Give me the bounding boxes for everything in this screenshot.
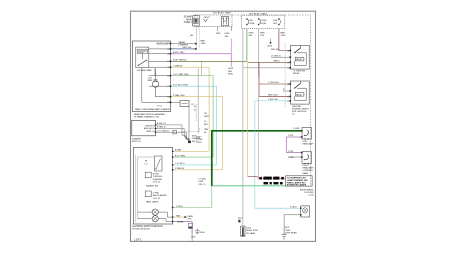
lamp circle 1 <box>138 209 194 220</box>
svg-text:2 PG 12: 2 PG 12 <box>153 198 161 200</box>
tan long vertical <box>247 61 249 176</box>
svg-text:RED 440: RED 440 <box>271 49 280 51</box>
switch internal feed wires <box>142 49 171 102</box>
schematic page border <box>131 11 316 241</box>
wire stub to flash-to-pass label <box>171 43 197 45</box>
svg-text:TURN: TURN <box>260 20 266 22</box>
headlamp switch inner contact box <box>136 47 152 72</box>
junction block caption <box>300 189 314 196</box>
svg-text:BRN 9: BRN 9 <box>274 61 281 63</box>
connector box on purple park wire <box>188 223 196 238</box>
svg-text:D LT GRN 1638: D LT GRN 1638 <box>173 74 189 76</box>
svg-text:DRL: DRL <box>274 20 279 22</box>
splice S339 <box>188 136 200 143</box>
svg-text:HAZARD SW: HAZARD SW <box>146 184 158 187</box>
svg-text:E LT BLU 1639: E LT BLU 1639 <box>173 84 189 86</box>
splice caption S338 <box>199 179 207 186</box>
svg-text:AND HI-LO: AND HI-LO <box>144 127 155 130</box>
fuse STOP in block 2 <box>274 18 281 25</box>
cyan wire long run to park lamp <box>255 99 301 208</box>
svg-text:PANEL: PANEL <box>179 41 187 44</box>
inline connector on dimmer wire <box>173 130 176 134</box>
thick DRL green feed wire <box>173 131 302 208</box>
svg-text:OFF PARK HEAD: OFF PARK HEAD <box>137 69 153 72</box>
drop from connector box to splice <box>188 106 190 140</box>
headlamp switch assembly caption <box>134 113 166 119</box>
gray ground vertical <box>242 29 244 226</box>
splice text S337 <box>196 137 203 144</box>
circuit breaker inside switch <box>148 69 171 97</box>
right headlamp caption <box>303 165 315 175</box>
svg-text:FLASHER: FLASHER <box>153 178 163 181</box>
footer text <box>134 238 142 241</box>
gray riser to park circuit <box>258 96 260 176</box>
pin labels at relay edges <box>288 50 290 103</box>
wire TAN from switch down <box>171 64 210 151</box>
park-turn switch lower box <box>133 148 172 224</box>
svg-text:W/ DRL MODULE: W/ DRL MODULE <box>132 228 150 230</box>
fuse HAZ in block 2 <box>258 18 267 25</box>
fuse2 drop + labels <box>259 29 266 77</box>
svg-text:BEAM: BEAM <box>303 172 309 175</box>
turn signal switch text <box>144 125 155 133</box>
lower box caption <box>132 225 163 231</box>
flasher unit cluster 2 <box>145 191 167 204</box>
lower box inner labels <box>145 161 148 166</box>
wire BLK stub to connector box <box>171 101 195 107</box>
svg-text:SWITCH: SWITCH <box>146 131 155 133</box>
svg-text:BLU: BLU <box>204 124 209 126</box>
connector pin marks <box>155 43 303 222</box>
connector at left edge of fuse block 1 <box>193 16 200 26</box>
svg-text:RELAY: RELAY <box>293 72 300 75</box>
wire LT BLU from lower box <box>173 163 217 165</box>
turn signal caption below <box>132 139 141 144</box>
svg-text:LT BLU: LT BLU <box>290 206 297 208</box>
svg-text:CKT: CKT <box>148 78 153 80</box>
ground symbol G200 <box>195 229 206 235</box>
switch pin letters <box>167 49 169 104</box>
splice label S204 <box>228 68 234 75</box>
svg-text:PNK: PNK <box>260 33 265 35</box>
svg-text:ORG: ORG <box>249 33 254 35</box>
wire BLU feed from fuse block 1 <box>171 27 197 49</box>
svg-text:PARK TURN HEADLAMP DIMMER: PARK TURN HEADLAMP DIMMER <box>135 108 170 111</box>
svg-text:BLK: BLK <box>285 227 290 229</box>
svg-text:G302: G302 <box>285 230 291 232</box>
svg-text:HAZ FLASHER: HAZ FLASHER <box>153 194 167 197</box>
svg-text:HOT AT ALL TIMES: HOT AT ALL TIMES <box>249 12 267 15</box>
svg-text:F TAN 1550: F TAN 1550 <box>173 94 185 97</box>
svg-text:B LT GRN: B LT GRN <box>175 155 185 157</box>
svg-text:B TAN 12: B TAN 12 <box>157 126 167 129</box>
svg-text:HDLP: HDLP <box>204 17 210 19</box>
svg-text:1 ORG 240: 1 ORG 240 <box>268 82 279 84</box>
svg-text:SW C1: SW C1 <box>192 141 199 143</box>
svg-text:1 OF 2: 1 OF 2 <box>134 238 142 241</box>
svg-text:HEADLAMP: HEADLAMP <box>303 167 315 170</box>
dashed connector line under fuse block 1 <box>198 27 200 48</box>
svg-text:W/ PANEL DIMMING CTRL: W/ PANEL DIMMING CTRL <box>134 116 160 119</box>
wire BRN to DRL relay <box>248 61 290 63</box>
svg-text:LIGHTING SWITCH DETAILS: LIGHTING SWITCH DETAILS <box>132 225 163 228</box>
svg-text:EXTERIOR LAMPS: EXTERIOR LAMPS <box>287 184 307 187</box>
svg-text:1 GRN: 1 GRN <box>293 128 300 130</box>
svg-text:DAYTIME: DAYTIME <box>292 105 301 108</box>
wire LT GRN from lower box <box>173 155 214 157</box>
feed label text left of fuse block 1 <box>184 16 193 25</box>
pin labels column <box>194 106 197 112</box>
relay 1 caption <box>293 71 306 76</box>
svg-text:A PPL 1637: A PPL 1637 <box>173 51 185 54</box>
riser bundle labels <box>204 113 209 134</box>
wire PPL from switch to splice <box>171 39 232 67</box>
wire TAN from lower box <box>173 149 210 152</box>
svg-text:PNK: PNK <box>216 33 221 35</box>
svg-text:B PNK: B PNK <box>153 174 160 176</box>
svg-text:P C2: P C2 <box>157 106 163 108</box>
olive jumper riser <box>201 61 203 75</box>
svg-text:HEADLAMP: HEADLAMP <box>156 43 169 46</box>
wire TAN lower return <box>173 167 223 170</box>
svg-text:PARK LAMPS: PARK LAMPS <box>146 201 159 204</box>
svg-text:RUNNING LAMPS: RUNNING LAMPS <box>292 107 309 110</box>
gray wire to relay1 pin D <box>243 67 291 69</box>
thin green run to junction block <box>212 182 286 186</box>
svg-text:2 PG 12: 2 PG 12 <box>153 182 161 184</box>
svg-text:D TAN 44: D TAN 44 <box>175 167 185 170</box>
pink circuit run with labels <box>248 177 286 180</box>
dashed connector line C2 <box>195 104 197 121</box>
svg-text:LO: LO <box>145 164 148 166</box>
DRL module dashed boundary <box>284 43 286 109</box>
fuse F1 in block 1 <box>204 17 211 22</box>
junction block bottom right <box>286 176 312 187</box>
svg-text:LPS: LPS <box>188 218 193 220</box>
svg-text:1 BLK 240: 1 BLK 240 <box>268 99 279 101</box>
svg-text:P 1420: P 1420 <box>176 206 183 208</box>
ground symbol bottom right <box>282 225 287 240</box>
wire DK GRN from switch <box>171 60 247 62</box>
svg-text:FUSE 1: FUSE 1 <box>184 22 193 24</box>
relay1 pin stub F <box>271 55 291 57</box>
svg-text:C LT GRN 11: C LT GRN 11 <box>157 130 170 132</box>
wire LT BLU from switch down <box>171 84 217 164</box>
svg-text:GRN: GRN <box>204 116 209 118</box>
stub label <box>179 41 189 47</box>
park lamp ground wire <box>284 215 301 235</box>
lower box inner switch <box>155 156 163 171</box>
relay 2 (DRL relay) box <box>291 81 310 104</box>
svg-text:TAN: TAN <box>204 128 209 131</box>
dashed connector corner C100 <box>181 127 200 132</box>
svg-text:C TAN 44: C TAN 44 <box>173 64 183 67</box>
wire LT GRN lower from switch <box>171 94 223 170</box>
svg-text:E PPL: E PPL <box>178 221 185 223</box>
svg-text:B DK GRN 45: B DK GRN 45 <box>173 60 187 62</box>
svg-text:50 AMP: 50 AMP <box>184 16 193 19</box>
svg-text:C205: C205 <box>309 195 315 197</box>
svg-text:1140: 1140 <box>281 35 286 37</box>
purple low beam run <box>287 135 303 159</box>
svg-text:RED: RED <box>201 41 206 43</box>
svg-text:HOT AT ALL TIMES: HOT AT ALL TIMES <box>213 12 231 15</box>
svg-text:SWITCH: SWITCH <box>132 141 141 143</box>
dimmer switch wires staircase to splice <box>156 122 190 141</box>
connector label on fuse1 drop <box>190 34 206 45</box>
svg-text:G200: G200 <box>200 232 206 234</box>
wire label blocks DK 1 PN 15 <box>264 182 283 184</box>
relay pin stub B <box>283 89 291 91</box>
lower box internal wiring <box>136 155 155 222</box>
splice S112 on ground drop <box>238 218 242 222</box>
lamp circle 2 <box>138 216 173 222</box>
svg-text:MAXI: MAXI <box>186 18 192 21</box>
svg-text:HEADLAMP SWITCH ASSEMBLY: HEADLAMP SWITCH ASSEMBLY <box>134 113 166 116</box>
svg-text:S112: S112 <box>238 218 242 220</box>
flasher unit cluster 1 <box>145 172 163 187</box>
fuse drop label <box>249 33 254 38</box>
svg-text:RED 1240: RED 1240 <box>268 95 278 97</box>
dark red feeds to DRL module <box>259 62 291 96</box>
svg-text:RELAY: RELAY <box>296 58 303 61</box>
splice dot S206 <box>267 39 273 48</box>
svg-text:OF DASH: OF DASH <box>246 232 256 235</box>
svg-text:A YEL 10: A YEL 10 <box>157 122 166 125</box>
ground component G103 center <box>241 226 259 236</box>
fuse DRL in block 2 <box>246 18 255 25</box>
svg-text:1 TAN: 1 TAN <box>288 156 294 159</box>
svg-text:1640: 1640 <box>201 43 207 45</box>
svg-text:RLY: RLY <box>274 23 279 25</box>
svg-text:RELAY: RELAY <box>296 93 303 96</box>
svg-text:BKR: BKR <box>148 80 153 82</box>
fuse block 1 (dashed box) <box>195 15 232 27</box>
dark red fuse3 drop to relay <box>279 29 291 51</box>
svg-text:TAN: TAN <box>176 214 181 217</box>
svg-text:HEADLAMP: HEADLAMP <box>303 142 315 145</box>
green DRL fuse drop <box>246 29 248 62</box>
svg-text:LEFT REAR: LEFT REAR <box>285 232 297 235</box>
svg-text:MOD: MOD <box>228 73 234 75</box>
svg-text:C LT BLU: C LT BLU <box>175 163 185 165</box>
svg-text:2 PPL: 2 PPL <box>288 151 295 153</box>
relay 1 (horn relay) box <box>291 45 310 69</box>
purple park wire bottom left <box>173 221 193 241</box>
left headlamp box <box>302 127 312 139</box>
wire LT GRN from switch down <box>171 74 214 157</box>
relay 2 caption <box>292 105 309 116</box>
turn signal switch box <box>132 120 156 135</box>
fuse element right side block 1 <box>222 17 229 26</box>
right headlamp box <box>302 152 312 164</box>
svg-text:A TAN: A TAN <box>175 149 182 152</box>
svg-text:2 PPL: 2 PPL <box>288 135 295 137</box>
gray service vertical <box>197 68 199 133</box>
fuse block 1 output stubs <box>216 27 231 38</box>
svg-text:ORG: ORG <box>225 33 230 35</box>
svg-text:LT GRN 11: LT GRN 11 <box>271 55 282 57</box>
svg-text:C PNK: C PNK <box>153 193 160 195</box>
svg-text:FUSE: FUSE <box>260 23 266 25</box>
wire label blocks B PNK 139 A <box>259 177 284 180</box>
svg-text:DIMMER: DIMMER <box>132 139 141 141</box>
svg-text:TURN SIG: TURN SIG <box>153 176 163 178</box>
svg-text:DRL C1: DRL C1 <box>199 184 207 186</box>
left headlamp caption <box>303 141 315 146</box>
fuse block 2 (dashed box, I/P fuse block) <box>242 15 285 29</box>
svg-text:TURN SIG: TURN SIG <box>145 125 155 127</box>
park lamp box bottom right <box>301 206 310 217</box>
dashed inner border top-right <box>232 15 311 186</box>
svg-text:DRL: DRL <box>249 20 254 22</box>
headlamp switch assembly box <box>133 41 171 112</box>
svg-text:FUSE: FUSE <box>249 23 255 25</box>
svg-text:RED: RED <box>281 33 286 35</box>
